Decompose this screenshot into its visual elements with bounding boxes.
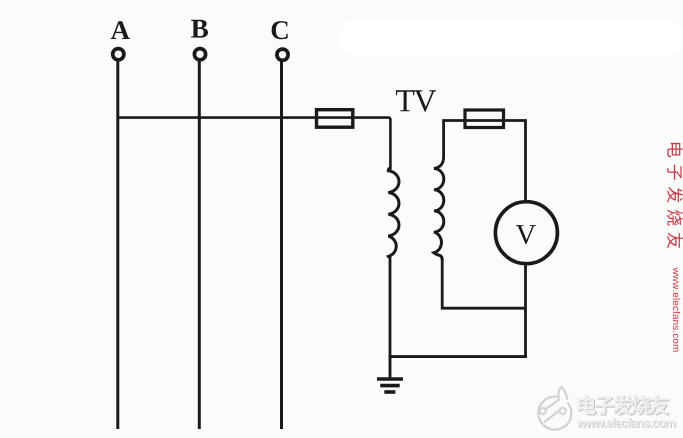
transformer label TV bbox=[396, 90, 436, 112]
voltmeter PV circle bbox=[495, 202, 557, 264]
node B label bbox=[191, 20, 208, 38]
terminal C bbox=[277, 49, 288, 60]
white brush band top right bbox=[340, 20, 683, 56]
watermark text www.elecfans.com (shadow) bbox=[578, 419, 676, 428]
wire ground stub bbox=[389, 356, 392, 378]
fuse FU1 bbox=[317, 110, 353, 128]
ground symbol bbox=[377, 379, 403, 392]
wire bus from A to primary drop bbox=[118, 118, 391, 170]
terminal B bbox=[194, 49, 205, 60]
wire secondary loop: coil top up, across, down right side bbox=[434, 121, 526, 201]
watermark logo circle bbox=[538, 387, 571, 430]
watermark text 电子发烧友 (shadow) bbox=[579, 396, 670, 416]
red side watermark www.elecfans.com bbox=[673, 268, 680, 352]
node C label bbox=[272, 21, 288, 39]
watermark text 电子发烧友 bbox=[578, 395, 669, 415]
wire phase A vertical bbox=[116, 61, 119, 429]
wire voltmeter bottom lead bbox=[524, 264, 527, 358]
watermark text www.elecfans.com bbox=[577, 418, 675, 427]
wire ground bus bbox=[389, 355, 527, 358]
voltmeter V label bbox=[516, 225, 536, 244]
node A label bbox=[111, 21, 130, 39]
fuse FU2 bbox=[465, 110, 504, 128]
terminal A bbox=[113, 49, 124, 60]
wire primary bottom to ground node bbox=[389, 257, 392, 359]
wire secondary bottom to junction with voltmeter lead bbox=[442, 258, 525, 308]
wire phase B vertical bbox=[198, 61, 201, 429]
red side watermark 电子发烧友 bbox=[667, 143, 683, 248]
transformer TV primary winding bbox=[388, 168, 399, 258]
transformer TV secondary winding bbox=[434, 169, 444, 261]
wire phase C vertical bbox=[280, 62, 283, 430]
